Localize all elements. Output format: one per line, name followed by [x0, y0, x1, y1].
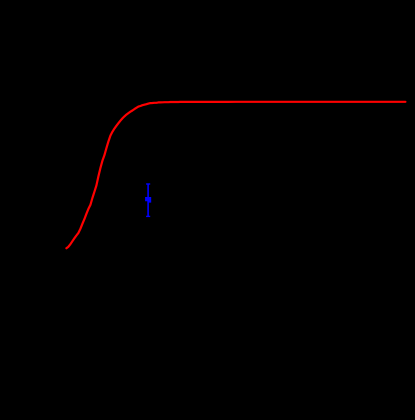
error bar top cap	[146, 183, 150, 185]
error bar vertical line	[147, 184, 149, 216]
fit curve (red sigmoid)	[66, 102, 405, 248]
error bar bottom cap	[146, 215, 150, 217]
data point marker (blue square)	[145, 197, 151, 203]
marker notch piece	[145, 199, 147, 200]
